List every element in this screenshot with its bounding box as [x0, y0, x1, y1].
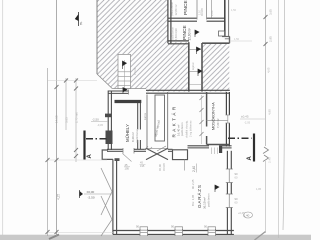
- svg-text:-2,05: -2,05: [244, 121, 251, 125]
- svg-text:-2,50: -2,50: [92, 118, 99, 122]
- raktar door cross: [157, 146, 166, 151]
- wall: garage top left: [107, 148, 123, 150]
- level marker left of garage: [80, 190, 113, 200]
- svg-text:MŰHELY: MŰHELY: [125, 124, 130, 142]
- hatched block right of corridor: [202, 43, 229, 91]
- wall: muhely right (double): [137, 103, 139, 130]
- svg-text:4,90: 4,90: [268, 109, 272, 115]
- wall: garage top seg: [168, 148, 173, 150]
- svg-text:1,50: 1,50: [231, 8, 237, 12]
- section line A right: [228, 134, 254, 162]
- svg-text:padló:beton: padló:beton: [170, 1, 174, 15]
- corridor treads: [190, 49, 202, 51]
- svg-text:7,20 m²: 7,20 m²: [216, 118, 220, 128]
- wall: strip divider: [146, 95, 148, 150]
- level marker left of muhely: [91, 118, 108, 128]
- north arrow: [75, 12, 83, 26]
- svg-text:2,40: 2,40: [192, 166, 196, 172]
- section line A left: [85, 131, 110, 160]
- svg-text:padló:beton: padló:beton: [171, 26, 175, 40]
- faint walkway line right of building: [230, 40, 252, 42]
- ticks left: [46, 79, 79, 235]
- svg-text:2,75 nyil.: 2,75 nyil.: [75, 112, 79, 123]
- flue block: [173, 150, 188, 160]
- wall: main mid horizontal: [146, 89, 230, 91]
- ramp chevrons left of garage: [101, 168, 112, 215]
- svg-text:+0,45: +0,45: [238, 211, 245, 215]
- vestibule wall top (double): [108, 90, 129, 92]
- svg-text:90: 90: [235, 172, 239, 176]
- svg-text:2,40: 2,40: [268, 157, 272, 163]
- svg-text:2,50×3,90: 2,50×3,90: [174, 28, 178, 41]
- wall: muhely top thick: [115, 100, 142, 103]
- svg-text:4,65: 4,65: [267, 67, 271, 73]
- bottom wall window 3: [208, 227, 216, 236]
- svg-text:15,60 m²: 15,60 m²: [188, 28, 192, 41]
- sill block on left wall: [105, 114, 112, 118]
- wall: right step: [222, 36, 230, 38]
- label RAKTAR: [167, 92, 169, 150]
- bottom wall window 1: [140, 227, 148, 236]
- svg-text:A: A: [87, 154, 93, 159]
- svg-text:Bm: 1,95: Bm: 1,95: [191, 194, 195, 206]
- scan edge line left: [2, 0, 4, 236]
- svg-text:45/195: 45/195: [162, 163, 166, 171]
- svg-text:195: 195: [125, 167, 130, 171]
- wall: left outer upper (double): [107, 91, 109, 151]
- svg-text:3,65: 3,65: [269, 9, 273, 15]
- bottom wall window 2: [175, 227, 183, 236]
- svg-text:±0,00: ±0,00: [158, 164, 162, 171]
- svg-text:17×29: 17×29: [133, 67, 137, 75]
- svg-text:-2,50: -2,50: [88, 196, 95, 200]
- svg-text:36,10 m²: 36,10 m²: [203, 197, 207, 209]
- svg-text:kamra: kamra: [144, 112, 147, 120]
- door swing garage top-left: [123, 154, 132, 162]
- hatched unexcavated area (main): [97, 0, 188, 92]
- wall: moso bottom: [207, 144, 230, 146]
- wall: garage right (double with windows): [226, 151, 233, 235]
- svg-text:padló:beton: padló:beton: [135, 128, 139, 142]
- circled dim: [244, 212, 253, 218]
- wall: right outer mid: [225, 92, 227, 115]
- wall: corridor left: [188, 42, 190, 91]
- corner stub at moso door: [219, 146, 222, 153]
- svg-text:2,95: 2,95: [269, 36, 273, 42]
- extension lines: [48, 80, 97, 82]
- svg-text:oldalfal vízszig.: oldalfal vízszig.: [185, 120, 189, 138]
- pince2 right recess: [219, 31, 225, 36]
- svg-text:14,30: 14,30: [55, 115, 59, 123]
- svg-text:1,95: 1,95: [256, 187, 262, 191]
- svg-text:1,50: 1,50: [234, 37, 240, 41]
- short chain lines left: [65, 78, 67, 130]
- svg-text:2,80: 2,80: [210, 10, 214, 16]
- wall: right outer top (double): [224, 0, 226, 37]
- X opening: [146, 148, 168, 150]
- svg-text:±0,00: ±0,00: [87, 190, 95, 194]
- svg-text:±0,45: ±0,45: [241, 115, 249, 119]
- flags (level markers): [123, 30, 220, 192]
- svg-text:195: 195: [140, 164, 145, 168]
- wall: garage left (double): [112, 159, 114, 234]
- scan smudge bottom-left: [49, 235, 59, 240]
- svg-text:3,65: 3,65: [65, 117, 69, 123]
- svg-text:90: 90: [235, 197, 239, 201]
- wall: garage bottom (double): [113, 230, 234, 232]
- interior dim chain: [201, 95, 203, 144]
- svg-text:lejárat: lejárat: [191, 62, 195, 70]
- svg-text:padló:beton: padló:beton: [207, 193, 211, 207]
- svg-text:4,25: 4,25: [57, 194, 61, 200]
- svg-text:2 rtg bőrlemez: 2 rtg bőrlemez: [189, 120, 193, 137]
- scan fold diagonal bottom-right: [255, 232, 266, 240]
- moso bench line: [207, 120, 228, 122]
- door jambs top rooms: [196, 0, 198, 20]
- wall: moso left: [206, 92, 208, 127]
- svg-text:90·2,25: 90·2,25: [191, 179, 195, 189]
- svg-text:-0,45: -0,45: [97, 123, 103, 127]
- svg-text:padló:beton: padló:beton: [180, 122, 184, 136]
- stair shaft box: [155, 95, 165, 141]
- right ticks: [264, 15, 268, 46]
- entrance stair cutout: [118, 54, 131, 88]
- svg-text:8,40 m²: 8,40 m²: [131, 132, 135, 142]
- svg-text:PINCE: PINCE: [183, 0, 189, 15]
- left outer step at garage corner: [102, 150, 113, 159]
- wall: block C top: [202, 42, 230, 44]
- scan band bottom: [0, 235, 311, 240]
- wall: pince divider horizontal: [168, 17, 197, 19]
- wall: garage top right: [188, 145, 210, 147]
- svg-text:90/195: 90/195: [200, 8, 204, 16]
- svg-text:A: A: [247, 156, 253, 161]
- svg-text:12,80 m²: 12,80 m²: [174, 4, 178, 15]
- hatch boundary left: [96, 0, 98, 74]
- wall: pince2 bottom: [168, 40, 189, 42]
- hatch boundary bottom: [112, 88, 146, 90]
- svg-text:16,40 m²: 16,40 m²: [177, 125, 181, 136]
- pillar on left wall: [106, 131, 113, 145]
- hatch boundary diagonal: [97, 74, 112, 89]
- wall: pince left: [167, 0, 169, 43]
- svg-text:MOSÓKONYHA: MOSÓKONYHA: [211, 102, 216, 130]
- svg-text:GARÁZS: GARÁZS: [196, 184, 202, 208]
- wall: corridor right: [201, 43, 203, 92]
